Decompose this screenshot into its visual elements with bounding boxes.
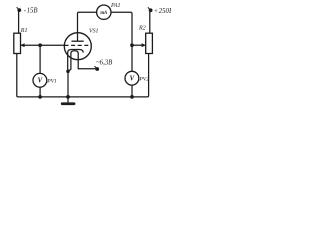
svg-text:~6,3В: ~6,3В — [96, 59, 112, 66]
svg-text:- 15В: - 15В — [24, 7, 38, 14]
svg-text:PV2: PV2 — [138, 76, 149, 82]
svg-text:PV1: PV1 — [46, 78, 57, 84]
svg-text:PA1: PA1 — [110, 3, 121, 9]
svg-text:+ 250В: + 250В — [154, 8, 171, 15]
svg-text:V: V — [130, 76, 135, 83]
svg-text:R1: R1 — [20, 28, 28, 34]
svg-text:mA: mA — [100, 11, 107, 16]
svg-text:VS1: VS1 — [89, 28, 99, 34]
svg-text:V: V — [38, 78, 43, 85]
svg-text:R2: R2 — [138, 25, 146, 31]
